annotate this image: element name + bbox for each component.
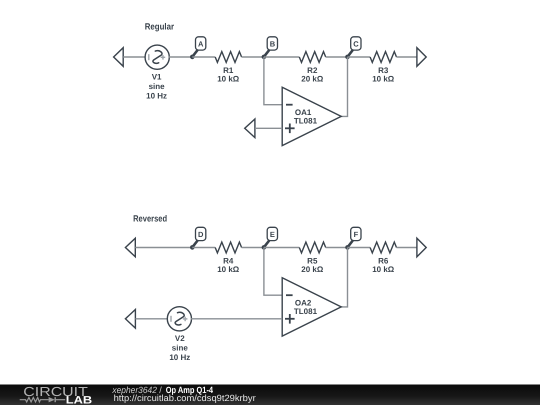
wire node D to R4 — [192, 247, 215, 249]
wire node C down to OA1 output — [341, 57, 347, 116]
node C — [345, 37, 361, 59]
R6 value labels — [372, 257, 395, 274]
V2 value labels — [169, 334, 190, 362]
wire R6 to port arrow P5 — [397, 247, 417, 249]
svg-text:10 Hz: 10 Hz — [169, 353, 190, 362]
node A — [190, 37, 206, 59]
svg-text:F: F — [354, 230, 359, 239]
svg-text:10 kΩ: 10 kΩ — [372, 74, 395, 83]
wire P1 to V1 — [123, 56, 145, 58]
wire P3 to OA1 non-inverting input — [255, 127, 282, 129]
svg-text:V2: V2 — [175, 334, 185, 343]
wire R3 to port arrow P2 — [397, 56, 417, 58]
svg-text:20 kΩ: 20 kΩ — [301, 265, 324, 274]
svg-text:TL081: TL081 — [294, 307, 318, 316]
OA1 labels — [294, 108, 318, 126]
R2 value labels — [301, 66, 324, 83]
V1 value labels — [146, 73, 167, 101]
R4 value labels — [217, 257, 240, 274]
wire node E down to OA2 inverting input — [264, 248, 282, 296]
svg-text:TL081: TL081 — [294, 117, 318, 126]
wire V2 to OA2 non-inverting input — [191, 318, 282, 320]
svg-text:E: E — [270, 230, 275, 239]
svg-text:LAB: LAB — [66, 395, 93, 405]
wire R5 to node F — [326, 247, 348, 249]
svg-text:20 kΩ: 20 kΩ — [301, 74, 324, 83]
node D — [190, 227, 206, 249]
wire node B to R2 — [264, 56, 299, 58]
wire R1 to node B — [242, 56, 264, 58]
svg-text:10 kΩ: 10 kΩ — [217, 265, 240, 274]
OA2 labels — [294, 299, 318, 317]
node E — [262, 227, 278, 249]
resistor R3 — [370, 52, 396, 63]
resistor R1 — [215, 52, 241, 63]
wire P6 to V2 — [135, 318, 167, 320]
resistor R6 — [370, 242, 396, 253]
port arrow P6 (V2 left flag) — [125, 310, 135, 329]
port arrow P5 (bottom-right output flag) — [417, 238, 426, 257]
svg-text:10 Hz: 10 Hz — [146, 91, 167, 100]
op-amp OA1 — [282, 87, 341, 145]
wire node B down to OA1 inverting input — [264, 57, 282, 105]
port arrow P4 (bottom-left input flag) — [125, 238, 135, 257]
svg-text:D: D — [198, 230, 204, 239]
svg-text:Regular: Regular — [145, 21, 175, 31]
resistor R4 — [215, 242, 241, 253]
svg-text:http://circuitlab.com/cdsq9t29: http://circuitlab.com/cdsq9t29krbyr — [114, 393, 256, 403]
port arrow P1 (top-left input flag) — [114, 48, 124, 67]
R1 value labels — [217, 66, 240, 83]
wire R4 to node E — [242, 247, 264, 249]
svg-text:sine: sine — [172, 344, 189, 353]
op-amp OA2 — [282, 278, 341, 336]
resistor R2 — [299, 52, 325, 63]
svg-text:10 kΩ: 10 kΩ — [372, 265, 395, 274]
wire R2 to node C — [326, 56, 348, 58]
wire node A to R1 — [192, 56, 215, 58]
svg-text:C: C — [353, 39, 359, 48]
R3 value labels — [372, 66, 395, 83]
R5 value labels — [301, 257, 324, 274]
voltage source V2 — [167, 307, 191, 331]
port arrow P2 (top-right output flag) — [417, 48, 426, 67]
svg-text:10 kΩ: 10 kΩ — [217, 74, 240, 83]
svg-text:A: A — [198, 39, 204, 48]
voltage source V1 — [145, 45, 169, 69]
wire node F down to OA2 output — [341, 248, 347, 307]
wire P4 to node D — [135, 247, 192, 249]
wire node C to R3 — [348, 56, 371, 58]
node B — [262, 37, 278, 59]
wire node E to R5 — [264, 247, 299, 249]
svg-text:sine: sine — [149, 82, 166, 91]
svg-text:B: B — [270, 39, 276, 48]
svg-text:V1: V1 — [152, 73, 162, 82]
wire V1 to node A — [169, 56, 193, 58]
CircuitLab logo — [20, 384, 93, 405]
svg-text:Reversed: Reversed — [133, 213, 167, 223]
node F — [345, 227, 361, 249]
resistor R5 — [299, 242, 325, 253]
wire node F to R6 — [348, 247, 371, 249]
footer bar — [0, 385, 540, 405]
port arrow P3 (OA1 non-inverting input flag) — [245, 119, 255, 138]
